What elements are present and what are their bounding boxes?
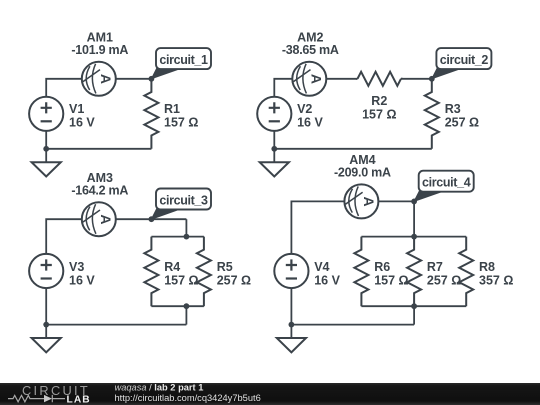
wire R2 to node N2 <box>401 78 432 80</box>
ground circuit 1 <box>32 149 61 177</box>
svg-text:R2: R2 <box>371 94 387 108</box>
label V4 value <box>314 260 340 288</box>
junction bottom rail circuit 4 <box>411 303 417 309</box>
resistor R5 <box>197 237 211 307</box>
wire parallel top rail circuit 3 <box>151 236 204 238</box>
voltage source V4 <box>274 254 308 288</box>
junction at V3 bottom <box>43 322 49 328</box>
svg-text:A: A <box>361 197 377 207</box>
net flag circuit_4 <box>414 171 474 202</box>
svg-text:257 Ω: 257 Ω <box>445 116 479 130</box>
svg-text:257 Ω: 257 Ω <box>217 273 251 287</box>
svg-text:R1: R1 <box>164 102 180 116</box>
svg-text:157 Ω: 157 Ω <box>164 116 198 130</box>
voltage source V1 <box>29 97 63 131</box>
junction at V4 bottom <box>289 322 295 328</box>
svg-text:R3: R3 <box>445 102 461 116</box>
resistor R1 <box>144 79 158 149</box>
ammeter AM4 <box>344 184 378 218</box>
voltage source V2 <box>257 97 291 131</box>
svg-text:16 V: 16 V <box>69 273 95 287</box>
wire down to parallel top rail <box>185 219 187 236</box>
svg-text:A: A <box>98 214 114 224</box>
resistor R3 <box>425 79 439 149</box>
node N4 junction <box>411 199 417 205</box>
wire down from bottom rail circuit 4 <box>413 306 415 324</box>
wire bottom rail circuit 1 <box>46 148 151 150</box>
label R6 value <box>374 260 408 288</box>
svg-text:V4: V4 <box>314 260 329 274</box>
CircuitLab logo wire with resistor and diode <box>8 395 65 402</box>
svg-text:157 Ω: 157 Ω <box>362 108 396 122</box>
wire V3 bottom <box>45 288 47 324</box>
svg-text:R6: R6 <box>374 260 390 274</box>
resistor R7 <box>407 237 421 307</box>
svg-text:R4: R4 <box>164 260 180 274</box>
resistor R2 <box>357 72 400 86</box>
ammeter AM3 <box>82 202 116 236</box>
svg-text:-101.9 mA: -101.9 mA <box>71 43 128 57</box>
svg-text:257 Ω: 257 Ω <box>427 273 461 287</box>
wire V2 top to AM2 <box>274 79 292 97</box>
junction at V1 bottom <box>43 146 49 152</box>
node N2 junction <box>429 76 435 82</box>
footer bar <box>0 383 540 405</box>
wire V4 top to AM4 <box>291 201 344 254</box>
svg-text:-38.65 mA: -38.65 mA <box>282 43 339 57</box>
wire down from bottom rail <box>185 306 187 324</box>
label AM4 reading <box>334 153 391 180</box>
svg-text:16 V: 16 V <box>297 116 323 130</box>
wire parallel bottom rail circuit 3 <box>151 305 204 307</box>
ammeter AM1 <box>82 62 116 96</box>
svg-text:A: A <box>98 74 114 84</box>
svg-text:V2: V2 <box>297 102 312 116</box>
label R3 value <box>445 102 479 130</box>
svg-text:LAB: LAB <box>67 394 91 405</box>
svg-text:http://circuitlab.com/cq3424y7: http://circuitlab.com/cq3424y7b5ut6 <box>115 393 261 403</box>
junction at V2 bottom <box>271 146 277 152</box>
resistor R4 <box>144 237 158 307</box>
svg-text:157 Ω: 157 Ω <box>164 273 198 287</box>
svg-text:R8: R8 <box>479 260 495 274</box>
wire parallel bottom rail circuit 4 <box>361 305 466 307</box>
svg-text:circuit_4: circuit_4 <box>422 176 471 190</box>
junction top rail circuit 4 <box>411 234 417 240</box>
wire AM2 to R2 <box>326 78 357 80</box>
net flag circuit_2 <box>432 48 492 79</box>
svg-text:-209.0 mA: -209.0 mA <box>334 166 391 180</box>
svg-text:16 V: 16 V <box>69 116 95 130</box>
label AM3 reading <box>71 171 128 198</box>
svg-text:A: A <box>309 74 325 84</box>
net flag circuit_1 <box>151 48 211 79</box>
label R7 value <box>427 260 461 288</box>
resistor R6 <box>354 237 368 307</box>
wire V1 top to AM1 <box>46 79 82 97</box>
label R8 value <box>479 260 513 288</box>
svg-text:circuit_3: circuit_3 <box>159 193 208 207</box>
svg-text:357 Ω: 357 Ω <box>479 273 513 287</box>
label R1 value <box>164 102 198 130</box>
label AM1 reading <box>71 31 128 58</box>
svg-text:circuit_2: circuit_2 <box>440 53 489 67</box>
wire AM1 to node N1 <box>116 78 152 80</box>
svg-text:157 Ω: 157 Ω <box>374 273 408 287</box>
svg-text:-164.2 mA: -164.2 mA <box>71 184 128 198</box>
svg-text:waqasa / lab 2 part 1: waqasa / lab 2 part 1 <box>115 383 204 393</box>
svg-text:V1: V1 <box>69 102 84 116</box>
net flag circuit_3 <box>151 189 211 220</box>
wire bottom rail circuit 3 <box>46 324 186 326</box>
wire V3 top to AM3 <box>46 219 82 254</box>
label R5 value <box>217 260 251 288</box>
ground circuit 4 <box>277 325 306 353</box>
wire bottom rail circuit 4 <box>291 324 414 326</box>
svg-text:circuit_1: circuit_1 <box>159 53 208 67</box>
svg-text:16 V: 16 V <box>314 273 340 287</box>
junction bottom rail circuit 3 <box>184 303 190 309</box>
resistor R8 <box>459 237 473 307</box>
label R2 value <box>362 94 396 122</box>
wire node N4 down to top rail <box>413 201 415 236</box>
svg-text:R7: R7 <box>427 260 443 274</box>
node N1 junction <box>149 76 155 82</box>
label R4 value <box>164 260 198 288</box>
svg-text:V3: V3 <box>69 260 84 274</box>
wire bottom rail circuit 2 <box>274 148 432 150</box>
label V2 value <box>297 102 323 130</box>
ammeter AM2 <box>292 62 326 96</box>
node N3 junction <box>149 216 155 222</box>
voltage source V3 <box>29 254 63 288</box>
wire AM4 to node N4 <box>378 200 414 202</box>
ground circuit 2 <box>260 149 289 177</box>
label V1 value <box>69 102 95 130</box>
svg-text:R5: R5 <box>217 260 233 274</box>
wire V1 bottom <box>45 131 47 149</box>
junction top rail circuit 3 <box>184 234 190 240</box>
wire AM3 to junction <box>116 218 187 220</box>
ground circuit 3 <box>32 325 61 353</box>
wire V2 bottom <box>273 131 275 149</box>
wire parallel top rail circuit 4 <box>361 236 466 238</box>
label V3 value <box>69 260 95 288</box>
wire V4 bottom <box>290 288 292 324</box>
label AM2 reading <box>282 31 339 58</box>
